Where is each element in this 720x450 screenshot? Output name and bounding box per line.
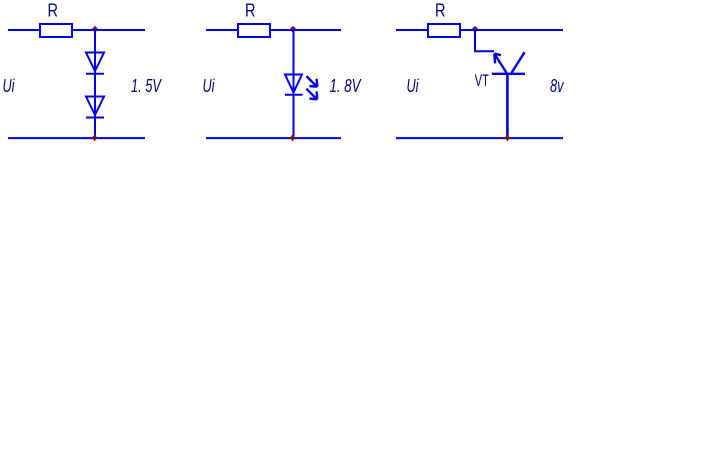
wire: junction to transistor horizontal segment [474,50,494,52]
LED emission arrow 1 [306,76,317,87]
wire: circuit 1 bottom rail [8,137,145,139]
node B (bottom junction, circuit 1) [92,134,97,141]
svg-text:VT: VT [475,71,489,90]
svg-text:Ui: Ui [3,76,16,96]
transistor VT base bar [492,73,525,75]
diode D1 [86,53,104,74]
node A (top junction, circuit 1) [92,26,99,33]
resistor R (circuit 1) [40,24,72,37]
node E (top junction, circuit 3) [472,26,479,33]
svg-text:1. 5V: 1. 5V [131,76,162,96]
svg-text:1. 8V: 1. 8V [330,76,362,96]
svg-text:R: R [435,1,446,21]
node C (top junction, circuit 2) [290,26,297,33]
resistor R (circuit 2) [238,24,270,37]
diode D2 [86,97,104,118]
wire: circuit 2 top rail [206,29,341,31]
LED emission arrow 2 [306,89,317,100]
wire: junction to transistor vertical segment [474,30,476,51]
wire: circuit 2 bottom rail [206,137,341,139]
wire: circuit 3 bottom rail [396,137,563,139]
svg-text:8v: 8v [550,76,564,96]
LED VD [285,75,303,95]
node D (bottom junction, circuit 2) [290,134,295,141]
svg-text:Ui: Ui [203,76,216,96]
wire: transistor to bottom rail [506,74,509,138]
svg-text:R: R [245,1,256,21]
node F (bottom junction, circuit 3) [505,134,510,141]
svg-text:Ui: Ui [407,76,420,96]
wire: circuit 1 vertical branch [94,30,96,138]
wire: circuit 1 top rail [8,29,145,31]
resistor R (circuit 3) [428,24,460,37]
transistor VT emitter arrow [494,54,506,73]
svg-text:R: R [48,1,59,21]
wire: circuit 2 vertical branch [293,30,295,138]
transistor VT collector stroke [512,52,525,73]
wire: circuit 3 top rail [396,29,563,31]
